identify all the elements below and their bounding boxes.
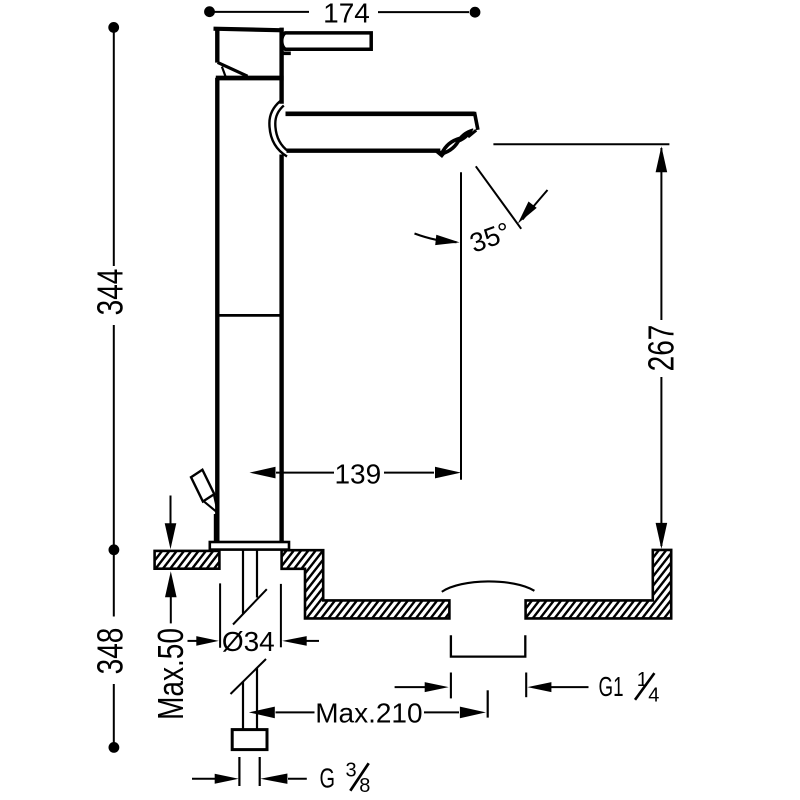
svg-text:267: 267 bbox=[641, 325, 681, 372]
svg-text:G1: G1 bbox=[599, 671, 624, 702]
svg-text:139: 139 bbox=[334, 458, 381, 489]
svg-text:344: 344 bbox=[90, 269, 130, 316]
svg-text:174: 174 bbox=[323, 0, 370, 29]
svg-text:Max.50: Max.50 bbox=[151, 628, 191, 720]
svg-text:4: 4 bbox=[648, 685, 659, 707]
svg-text:Ø34: Ø34 bbox=[222, 626, 275, 657]
svg-text:348: 348 bbox=[90, 628, 130, 675]
svg-text:Max.210: Max.210 bbox=[315, 698, 422, 729]
svg-text:G: G bbox=[320, 762, 336, 793]
svg-text:8: 8 bbox=[359, 775, 370, 797]
svg-text:3: 3 bbox=[346, 759, 357, 781]
